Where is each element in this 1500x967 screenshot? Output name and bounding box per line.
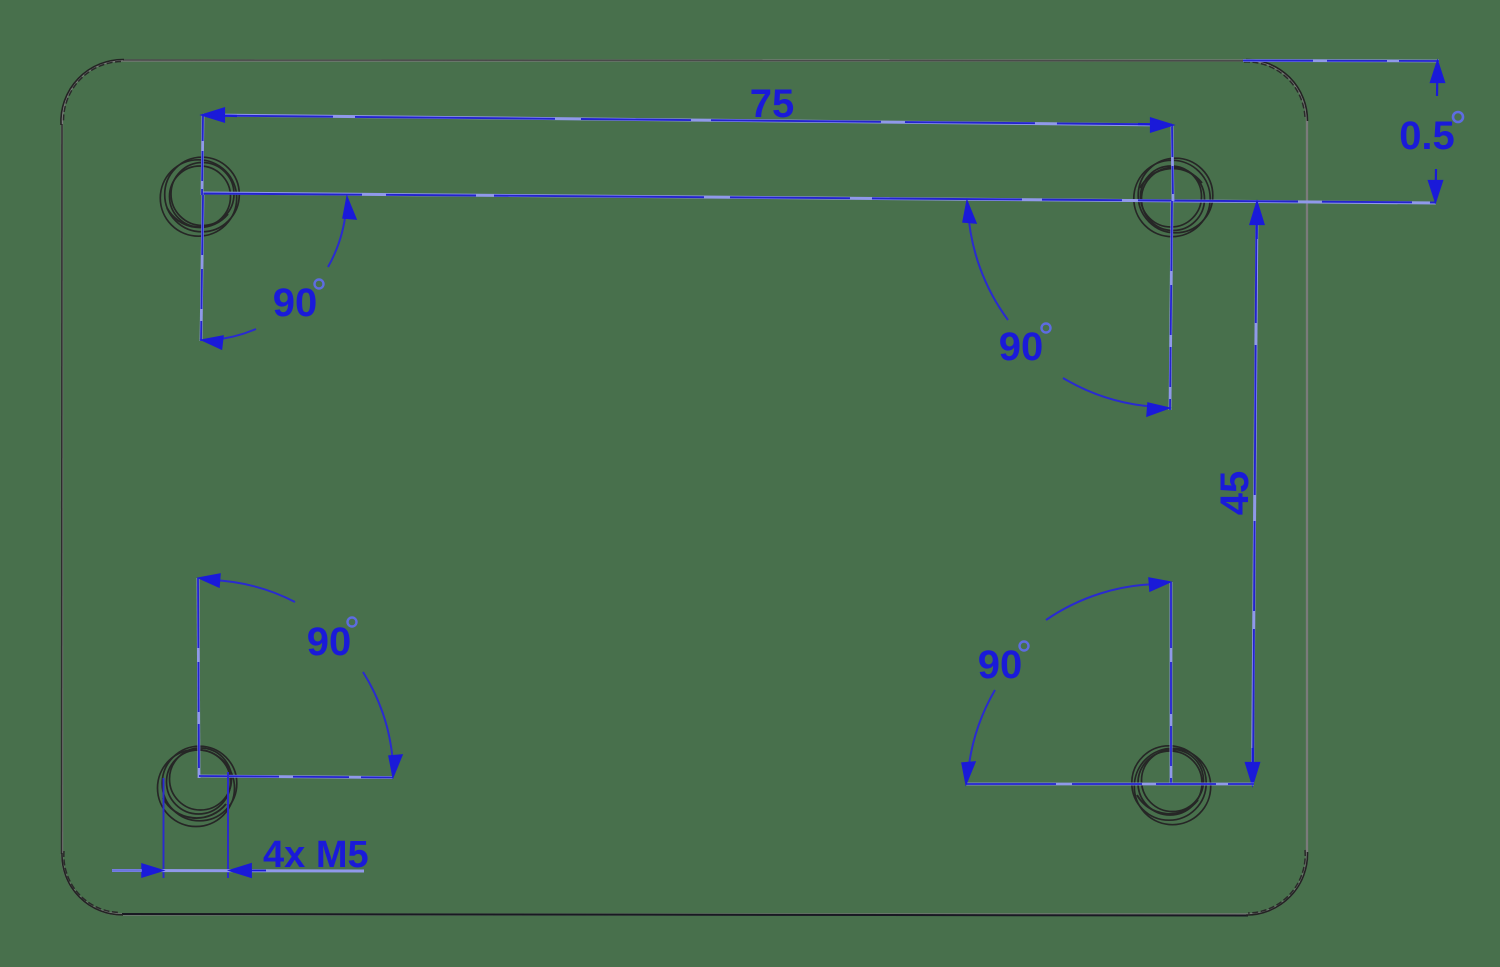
90deg dim top-left: arrow on center line (points up) <box>343 197 356 219</box>
svg-text:45: 45 <box>1213 471 1257 516</box>
dim 75 extension line left <box>202 115 203 195</box>
dim 4xM5 extension line right <box>227 772 229 878</box>
svg-text:0.5: 0.5 <box>1399 114 1455 158</box>
corner arc bottom-left <box>62 853 123 915</box>
dim 45 line <box>1253 203 1258 784</box>
dim 45 down arrow <box>1246 748 1259 784</box>
90deg dim top-right: degree symbol <box>1042 324 1051 333</box>
90deg dim top-left: vertical leg <box>201 195 203 341</box>
dim 0.5 degree symbol <box>1453 112 1463 122</box>
90deg dim bottom-left: vertical leg <box>198 578 199 778</box>
90deg dim top-right: arrow at bottom (points right) <box>1147 403 1169 416</box>
hole top-right <box>1134 158 1213 237</box>
90deg dim bottom-right: arrow at left (points down) <box>962 762 975 784</box>
center line through hole centers to right edge <box>202 193 1436 203</box>
hole bottom-right <box>1132 746 1211 825</box>
plate outline rounded rect (gray base) <box>61 59 1308 915</box>
90deg dim top-left: arrow at bottom (points left) <box>202 336 223 349</box>
dim 45 up arrow <box>1251 203 1264 239</box>
dim 75 extension line right <box>1172 125 1173 201</box>
90deg dim bottom-left: arc <box>210 580 295 602</box>
hole bottom-left <box>158 746 237 826</box>
90deg dim bottom-left: degree symbol <box>348 618 357 627</box>
90deg dim bottom-left: arrow at right (points down) <box>389 755 402 777</box>
svg-text:90: 90 <box>999 325 1044 369</box>
90deg dim bottom-right: vertical leg <box>1170 582 1173 784</box>
plate top edge <box>123 59 1247 62</box>
dim 4xM5 arrow left (points right) <box>142 864 163 877</box>
dim 0.5 down arrow <box>1429 169 1442 201</box>
90deg dim bottom-left: horizontal leg <box>199 776 393 778</box>
dim 75 arrow left <box>203 109 237 122</box>
svg-text:90: 90 <box>978 643 1023 687</box>
dim 75 line <box>203 115 1172 125</box>
90deg dim top-right: vertical leg <box>1170 201 1172 410</box>
plate bottom edge <box>122 914 1248 916</box>
dim 4xM5 extension line left <box>163 778 165 878</box>
corner arc top-right <box>1246 59 1308 121</box>
svg-text:90: 90 <box>307 620 352 664</box>
corner arc top-left <box>61 59 124 125</box>
plate left edge <box>61 124 64 854</box>
90deg dim top-left: arc <box>212 329 256 340</box>
90deg dim bottom-right: arrow at top (points right) <box>1149 578 1170 591</box>
svg-text:4x M5: 4x M5 <box>263 834 369 876</box>
dim 0.5 top extension line <box>1243 59 1439 62</box>
90deg dim top-right: arrow on center line (points up) <box>963 201 976 223</box>
90deg dim bottom-left: arrow at top (points left) <box>199 574 220 587</box>
90deg dim top-right: arc <box>968 210 1008 320</box>
90deg dim bottom-right: horizontal leg <box>966 783 1254 786</box>
dim 4xM5 arrow right (points left) <box>230 864 266 877</box>
90deg dim bottom-right: arc <box>1046 584 1160 620</box>
90deg dim top-left: degree symbol <box>315 280 324 289</box>
corner arc bottom-right <box>1246 852 1308 915</box>
dim 0.5 up arrow <box>1431 62 1444 96</box>
hole top-left <box>160 157 239 236</box>
90deg dim bottom-right: degree symbol <box>1020 642 1029 651</box>
svg-text:75: 75 <box>750 82 795 126</box>
svg-text:90: 90 <box>273 281 318 325</box>
dim 75 arrow right <box>1138 119 1172 132</box>
dim 4xM5 line <box>112 869 364 873</box>
